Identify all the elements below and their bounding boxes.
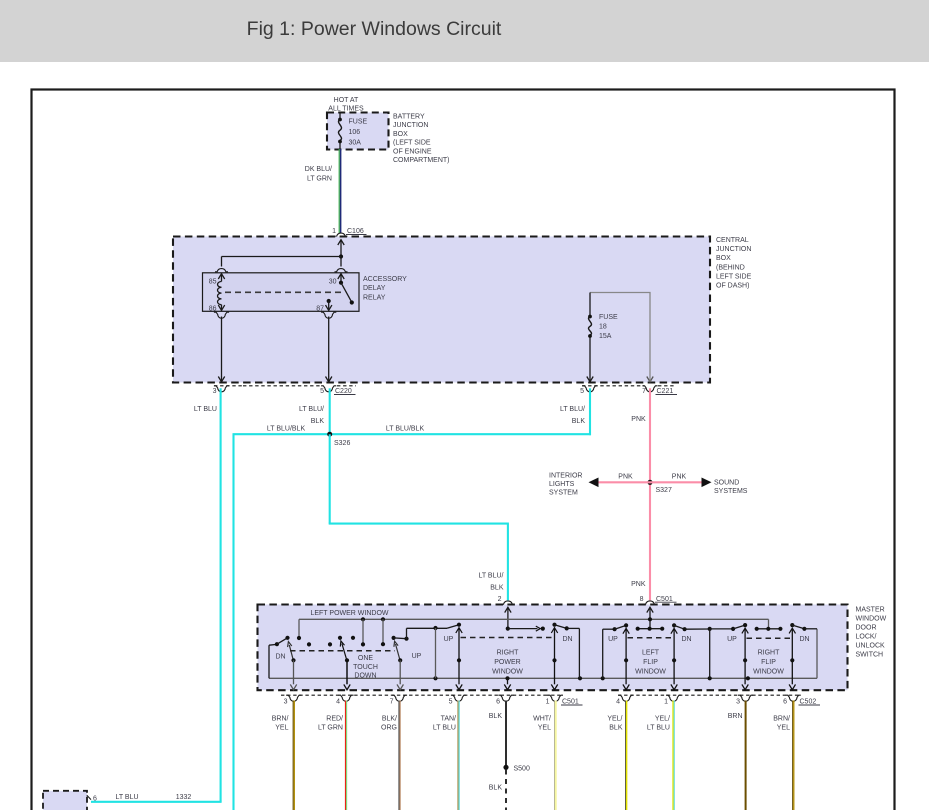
- wire BRN/YEL pin 3: [292, 701, 294, 810]
- svg-text:UNLOCK: UNLOCK: [856, 643, 886, 650]
- svg-text:RED/: RED/: [326, 716, 343, 723]
- wire LT BLU/BLK from S326 to master switch pin 2: [329, 434, 331, 523]
- relay pin 30 and switch blade: [335, 269, 348, 272]
- svg-text:C106: C106: [347, 228, 364, 235]
- wire BLK pin 6: [505, 701, 507, 767]
- svg-text:BLK: BLK: [490, 585, 504, 592]
- svg-text:C502: C502: [800, 699, 817, 706]
- wire to pin 7: [399, 660, 401, 684]
- svg-text:PNK: PNK: [672, 474, 687, 481]
- svg-text:FUSE: FUSE: [599, 314, 618, 321]
- central junction box (dashed): [173, 237, 710, 383]
- svg-text:C501: C501: [562, 699, 579, 706]
- svg-text:BLK: BLK: [609, 725, 623, 732]
- svg-text:FUSE: FUSE: [349, 119, 368, 126]
- svg-text:(BEHIND: (BEHIND: [716, 264, 745, 271]
- connector C220 dashed line: [214, 385, 243, 387]
- svg-text:1: 1: [664, 699, 668, 706]
- svg-text:85: 85: [209, 279, 217, 286]
- svg-text:LT BLU/: LT BLU/: [478, 573, 503, 580]
- switch UP right flip window: [710, 628, 733, 630]
- wire LT BLU from CJB pin 3 down: [220, 388, 222, 802]
- svg-text:POWER: POWER: [494, 659, 520, 666]
- svg-text:LT BLU: LT BLU: [647, 725, 670, 732]
- svg-text:BLK: BLK: [489, 785, 503, 792]
- svg-text:BRN: BRN: [728, 713, 743, 720]
- svg-text:(LEFT SIDE: (LEFT SIDE: [393, 140, 431, 147]
- wire BRN/YEL pin 6: [792, 701, 794, 810]
- svg-text:LEFT POWER WINDOW: LEFT POWER WINDOW: [310, 610, 388, 617]
- switch ONE TOUCH DOWN: [342, 644, 347, 661]
- svg-text:S500: S500: [514, 766, 530, 773]
- svg-text:RELAY: RELAY: [363, 294, 386, 301]
- svg-text:106: 106: [349, 129, 361, 136]
- relay internal dashed link: [225, 291, 344, 293]
- svg-text:BLK/: BLK/: [382, 716, 397, 723]
- svg-text:MASTER: MASTER: [856, 607, 885, 614]
- switch DN right power window: [552, 623, 556, 627]
- svg-text:2: 2: [498, 596, 502, 603]
- wire WHT/YEL pin 1: [554, 701, 556, 810]
- svg-text:LT GRN: LT GRN: [307, 176, 332, 183]
- right flip dashed link: [747, 637, 792, 639]
- left flip dashed link: [628, 637, 674, 639]
- wire LT BLU horizontal into module: [91, 801, 222, 803]
- wire PNK to interior lights system: [597, 481, 651, 483]
- svg-text:7: 7: [642, 388, 646, 395]
- svg-text:FLIP: FLIP: [761, 659, 776, 666]
- svg-text:LT BLU: LT BLU: [115, 794, 138, 801]
- connector C106: [335, 233, 348, 236]
- svg-text:C221: C221: [657, 388, 674, 395]
- svg-text:LEFT: LEFT: [642, 650, 660, 657]
- wire BLK dashed below S500: [505, 770, 507, 810]
- svg-text:4: 4: [616, 699, 620, 706]
- svg-text:18: 18: [599, 323, 607, 330]
- svg-text:FLIP: FLIP: [643, 659, 658, 666]
- switch UP left power window: [392, 636, 396, 640]
- wire relay 87 to CJB pin 5: [328, 317, 330, 377]
- svg-text:YEL/: YEL/: [655, 716, 670, 723]
- svg-text:SOUND: SOUND: [714, 480, 739, 487]
- right flip contact bar: [757, 628, 781, 630]
- relay pin 86: [221, 305, 223, 311]
- switch UP left flip window: [602, 629, 604, 678]
- svg-text:Fig 1: Power Windows Circuit: Fig 1: Power Windows Circuit: [247, 18, 502, 40]
- svg-text:87: 87: [316, 306, 324, 313]
- wire PNK to sound systems: [650, 481, 704, 483]
- connector C221 dashed line: [582, 385, 644, 387]
- svg-text:BRN/: BRN/: [272, 716, 289, 723]
- svg-text:TOUCH: TOUCH: [353, 664, 378, 671]
- svg-text:6: 6: [783, 699, 787, 706]
- relay coil: [218, 282, 222, 305]
- wire LT BLU/BLK from fuse18 pin 5 down to S326 branch: [589, 388, 591, 435]
- svg-text:PNK: PNK: [631, 581, 646, 588]
- svg-text:BLK: BLK: [489, 713, 503, 720]
- svg-text:1: 1: [546, 699, 550, 706]
- svg-text:BOX: BOX: [716, 255, 731, 262]
- battery junction box (dashed): [327, 113, 389, 150]
- svg-text:BLK: BLK: [311, 418, 325, 425]
- node S326: [327, 432, 332, 437]
- pin 2 feed to DN contact: [506, 627, 510, 631]
- wire BRN pin 3: [745, 701, 747, 810]
- svg-text:HOT AT: HOT AT: [334, 97, 359, 104]
- svg-text:WINDOW: WINDOW: [753, 668, 784, 675]
- svg-text:LIGHTS: LIGHTS: [549, 481, 575, 488]
- wire DK BLU/LT GRN from fuse 106 to C106: [338, 149, 340, 233]
- svg-text:UP: UP: [412, 653, 422, 660]
- wire RED/LT GRN pin 4: [344, 701, 346, 810]
- svg-text:WINDOW: WINDOW: [856, 616, 887, 623]
- svg-text:RIGHT: RIGHT: [758, 650, 781, 657]
- svg-text:SYSTEM: SYSTEM: [549, 490, 578, 497]
- svg-text:ORG: ORG: [381, 725, 397, 732]
- svg-text:OF ENGINE: OF ENGINE: [393, 148, 432, 155]
- left flip contact bar: [638, 628, 663, 630]
- svg-text:OF DASH): OF DASH): [716, 283, 749, 290]
- svg-text:LT BLU/: LT BLU/: [299, 406, 324, 413]
- svg-text:3: 3: [736, 699, 740, 706]
- left power window dashed link: [290, 650, 395, 652]
- contact dots: [307, 642, 311, 646]
- connector C502 dashed line: [618, 694, 799, 696]
- pin 6 ground exit: [507, 678, 509, 684]
- wire YEL/LT BLU pin 1: [672, 701, 674, 810]
- wire to pin 3: [293, 660, 295, 684]
- svg-text:YEL/: YEL/: [607, 716, 622, 723]
- svg-text:WINDOW: WINDOW: [492, 668, 523, 675]
- switch DN left power window: [268, 645, 270, 678]
- svg-text:LT BLU: LT BLU: [194, 406, 217, 413]
- accessory delay relay U1 box: [203, 273, 360, 312]
- svg-text:15A: 15A: [599, 333, 612, 340]
- svg-text:DELAY: DELAY: [363, 285, 386, 292]
- switch DN left flip window: [672, 623, 676, 627]
- svg-text:COMPARTMENT): COMPARTMENT): [393, 157, 450, 164]
- fuse 18 symbol: [589, 293, 591, 316]
- right power window dashed link: [461, 637, 554, 639]
- connector pin 6 tick: [87, 795, 91, 799]
- node S327: [647, 480, 652, 485]
- svg-text:UP: UP: [727, 636, 737, 643]
- svg-text:3: 3: [284, 699, 288, 706]
- svg-text:5: 5: [449, 699, 453, 706]
- svg-text:5: 5: [580, 388, 584, 395]
- wire relay 86 to CJB pin 3: [221, 317, 223, 377]
- svg-text:RIGHT: RIGHT: [497, 650, 520, 657]
- svg-text:DN: DN: [275, 654, 285, 661]
- svg-text:JUNCTION: JUNCTION: [393, 122, 428, 129]
- header bar: [0, 0, 929, 62]
- svg-text:UP: UP: [444, 636, 454, 643]
- svg-text:YEL: YEL: [538, 725, 551, 732]
- svg-text:1: 1: [332, 228, 336, 235]
- svg-text:YEL: YEL: [275, 725, 288, 732]
- wire BLK/ORG pin 7: [398, 701, 400, 810]
- svg-text:DOOR: DOOR: [856, 625, 877, 632]
- svg-text:CENTRAL: CENTRAL: [716, 237, 749, 244]
- svg-text:6: 6: [496, 699, 500, 706]
- wire YEL/BLK pin 4: [624, 701, 626, 810]
- svg-text:ACCESSORY: ACCESSORY: [363, 276, 407, 283]
- top supply bus: [299, 618, 769, 620]
- wire PNK from C221 down to master switch pin 8: [649, 388, 651, 600]
- pivot return to ground bus: [435, 628, 437, 678]
- svg-text:ALL TIMES: ALL TIMES: [328, 105, 364, 112]
- svg-text:S326: S326: [334, 440, 350, 447]
- svg-text:86: 86: [209, 306, 217, 313]
- wire C106 to relay pins 30 and 85: [338, 240, 344, 245]
- svg-text:BOX: BOX: [393, 131, 408, 138]
- svg-text:DOWN: DOWN: [354, 672, 376, 679]
- svg-text:1332: 1332: [176, 794, 192, 801]
- svg-text:DN: DN: [799, 636, 809, 643]
- svg-text:LT BLU/BLK: LT BLU/BLK: [386, 426, 425, 433]
- svg-text:8: 8: [640, 596, 644, 603]
- svg-text:TAN/: TAN/: [441, 716, 456, 723]
- svg-text:30A: 30A: [349, 140, 362, 147]
- switch DN right flip window: [790, 623, 794, 627]
- svg-text:LT BLU: LT BLU: [433, 725, 456, 732]
- svg-text:BRN/: BRN/: [773, 716, 790, 723]
- svg-text:ONE: ONE: [358, 655, 374, 662]
- CJB pin 7 exit: [647, 377, 653, 382]
- svg-text:YEL: YEL: [777, 725, 790, 732]
- svg-text:WINDOW: WINDOW: [635, 668, 666, 675]
- module box (dashed, clipped): [43, 791, 87, 810]
- master window switch box (dashed): [258, 605, 848, 691]
- svg-text:UP: UP: [608, 636, 618, 643]
- wire LT BLU/BLK from CJB pin 5 to S326: [329, 388, 331, 434]
- svg-text:C220: C220: [335, 388, 352, 395]
- svg-text:30: 30: [329, 279, 337, 286]
- svg-text:LT BLU/: LT BLU/: [560, 406, 585, 413]
- fuse 18 holder: [590, 293, 650, 377]
- wire TAN/LT BLU pin 5: [457, 701, 459, 810]
- svg-text:DN: DN: [562, 636, 572, 643]
- svg-text:SWITCH: SWITCH: [856, 652, 884, 659]
- svg-text:4: 4: [336, 699, 340, 706]
- svg-text:PNK: PNK: [631, 416, 646, 423]
- svg-text:INTERIOR: INTERIOR: [549, 473, 582, 480]
- pin 8 entry C501: [644, 601, 657, 604]
- splice S326 horizontal wire: [233, 433, 592, 435]
- relay pin 85: [215, 269, 228, 272]
- switch UP right power window: [447, 625, 459, 629]
- wire to pin 4: [346, 660, 348, 684]
- svg-text:3: 3: [213, 388, 217, 395]
- ground bus: [269, 677, 817, 679]
- svg-text:DN: DN: [681, 636, 691, 643]
- svg-text:5: 5: [320, 388, 324, 395]
- svg-text:LT GRN: LT GRN: [318, 725, 343, 732]
- svg-text:SYSTEMS: SYSTEMS: [714, 488, 748, 495]
- svg-text:BATTERY: BATTERY: [393, 114, 425, 121]
- svg-text:WHT/: WHT/: [533, 716, 551, 723]
- svg-text:BLK: BLK: [572, 418, 586, 425]
- node S500: [503, 765, 508, 770]
- wire LT BLU/BLK left branch down to page bottom: [232, 434, 234, 810]
- svg-text:LEFT SIDE: LEFT SIDE: [716, 273, 752, 280]
- svg-text:JUNCTION: JUNCTION: [716, 246, 751, 253]
- relay pin 87: [327, 299, 331, 303]
- svg-text:LT BLU/BLK: LT BLU/BLK: [267, 426, 306, 433]
- connector C501 dashed line: [281, 694, 545, 696]
- svg-text:7: 7: [390, 699, 394, 706]
- svg-text:DK BLU/: DK BLU/: [305, 166, 332, 173]
- svg-text:LOCK/: LOCK/: [856, 634, 877, 641]
- svg-text:PNK: PNK: [618, 474, 633, 481]
- svg-text:S327: S327: [656, 487, 672, 494]
- pin 2 entry: [501, 601, 514, 604]
- fuse F106 symbol: [339, 114, 341, 119]
- CJB pin 5 (fuse 18) exit: [587, 377, 593, 382]
